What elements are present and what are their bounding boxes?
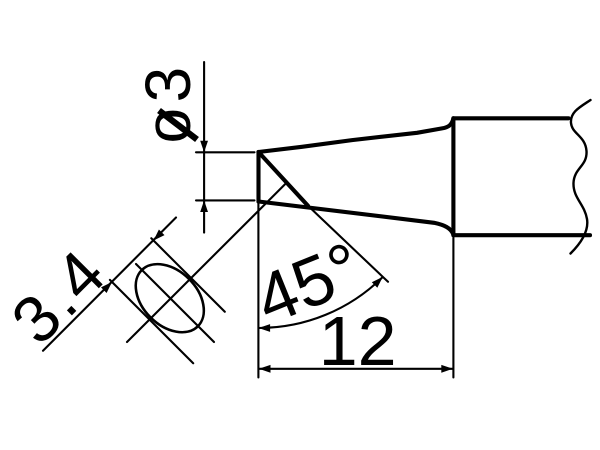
break line: [571, 100, 591, 254]
dim ø3 extension top: [196, 151, 255, 153]
dim 45 arrow left: [259, 324, 271, 332]
dim ø3 arrow bottom: [200, 200, 208, 212]
shaft bottom: [453, 233, 590, 237]
dim 12 extension right: [452, 238, 454, 378]
shoulder: [451, 118, 455, 235]
dim 3.4 dimension line: [43, 218, 176, 351]
dim ø3 extension bottom: [196, 199, 255, 201]
dim 12 dimension line: [259, 368, 453, 370]
bevel edge: [259, 152, 309, 206]
dim 45 arrow right: [372, 277, 383, 288]
lower profile: [259, 202, 454, 235]
dim 12 arrow left: [259, 365, 271, 373]
dim 45 leg line: [308, 206, 388, 282]
tip face: [256, 152, 260, 202]
dim 3.4 arrow upper: [154, 230, 165, 241]
dim 12 extension left: [257, 203, 259, 378]
dim 45 arc: [259, 277, 383, 328]
dim 3.4 extension 1: [151, 238, 225, 311]
dim 12 arrow right: [441, 365, 453, 373]
svg-text:3.4: 3.4: [0, 234, 121, 358]
dim 3.4 extension 2: [110, 280, 193, 363]
dim ø3 label slash: [159, 111, 197, 140]
svg-text:o3: o3: [132, 61, 204, 143]
dim ø3 dimension line: [203, 62, 205, 233]
axis line P: [136, 264, 214, 342]
dim ø3 arrow top: [200, 141, 208, 153]
upper profile: [259, 119, 454, 153]
dim 3.4 arrow lower: [101, 282, 112, 293]
shaft top: [453, 116, 568, 120]
axis line A: [127, 182, 287, 342]
bevel face ellipse: [122, 251, 217, 346]
